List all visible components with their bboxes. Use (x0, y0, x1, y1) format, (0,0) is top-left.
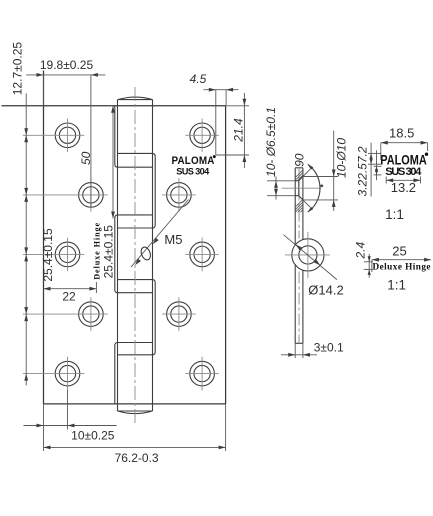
section strip centerline (298, 168, 300, 239)
knuckle centerline (134, 87, 136, 423)
knuckle piece 1 (left leaf, top) (115, 106, 152, 167)
hole centerline (282, 187, 322, 189)
pin bottom dome (118, 411, 153, 414)
knuckle circle Ø14.2 (292, 239, 324, 271)
svg-text:90: 90 (292, 153, 306, 167)
hole at col 179 row 195 (167, 183, 192, 208)
svg-text:PALOMA: PALOMA (172, 155, 215, 167)
pin top dome (118, 97, 153, 100)
svg-text:Ø14.2: Ø14.2 (308, 283, 343, 298)
svg-text:25.4±0.15: 25.4±0.15 (102, 225, 116, 279)
svg-text:13.2: 13.2 (391, 180, 416, 195)
knuckle pin barrel (117, 100, 119, 411)
svg-text:12.7±0.25: 12.7±0.25 (10, 42, 24, 96)
hole at col 202 row 254 (190, 242, 215, 267)
wire top edge + extension left (2, 105, 226, 107)
knuckle piece 3 (left leaf, middle) (115, 215, 152, 293)
svg-text:21.4: 21.4 (232, 118, 246, 143)
svg-text:2.4: 2.4 (354, 242, 368, 260)
hole at col 68 row 374 (55, 361, 80, 386)
svg-text:10-Ø10: 10-Ø10 (334, 138, 348, 178)
Ø14.2 leader (284, 235, 337, 280)
svg-text:1:1: 1:1 (387, 278, 406, 293)
section strip bottom edge (295, 342, 303, 344)
svg-text:19.8±0.25: 19.8±0.25 (40, 58, 94, 72)
svg-text:M5: M5 (164, 232, 182, 247)
hole at col 202 row 135 (190, 123, 215, 148)
svg-text:SUS 304: SUS 304 (385, 166, 422, 178)
svg-text:50: 50 (79, 151, 93, 165)
wire left edge (43, 71, 45, 404)
wire right edge (225, 106, 227, 404)
countersunk hole section (295, 180, 299, 182)
svg-text:SUS 304: SUS 304 (176, 167, 210, 177)
chamfer extension lines (303, 169, 310, 176)
hole at col 91 row 314 (79, 302, 104, 327)
svg-text:25.4±0.15: 25.4±0.15 (41, 228, 55, 282)
svg-text:10±0.25: 10±0.25 (71, 429, 115, 443)
svg-text:10- Ø6.5±0.1: 10- Ø6.5±0.1 (264, 107, 278, 177)
svg-text:18.5: 18.5 (389, 126, 414, 141)
svg-text:Deluxe Hinge: Deluxe Hinge (373, 261, 431, 271)
ext line 19.8 right (down to inner hole) (90, 75, 92, 208)
svg-text:PALOMA: PALOMA (380, 151, 427, 167)
svg-text:1:1: 1:1 (385, 207, 404, 222)
hole at col 68 row 254 (55, 242, 80, 267)
knuckle piece 5 (left leaf, bottom) (115, 343, 152, 404)
angle vertex dot (321, 185, 324, 188)
svg-text:4.5: 4.5 (190, 72, 207, 86)
knuckle piece 4 (right leaf) (118, 280, 155, 355)
hole at col 202 row 374 (190, 361, 215, 386)
section strip leaf edges (294, 168, 296, 245)
hole at col 68 row 135 (55, 123, 80, 148)
hole at col 91 row 195 (79, 183, 104, 208)
wire bottom edge (44, 403, 226, 405)
knuckle piece 2 (right leaf) (118, 153, 155, 228)
section strip top edge (295, 167, 303, 169)
svg-text:3.22.57.2: 3.22.57.2 (355, 146, 369, 196)
svg-text:25: 25 (392, 244, 406, 259)
svg-text:22: 22 (62, 290, 76, 304)
90 degree countersink angle arc (308, 164, 320, 212)
svg-text:3±0.1: 3±0.1 (314, 340, 344, 354)
svg-text:76.2-0.3: 76.2-0.3 (115, 451, 159, 465)
svg-text:Deluxe Hinge: Deluxe Hinge (93, 222, 102, 279)
M5 hole ellipse (140, 246, 153, 261)
hole at col 179 row 314 (167, 302, 192, 327)
